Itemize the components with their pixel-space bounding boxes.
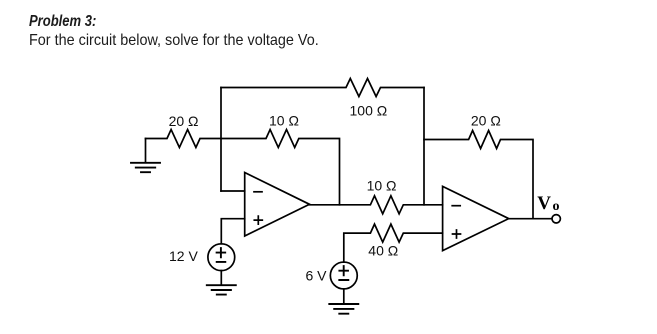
svg-text:20 Ω: 20 Ω <box>471 113 501 129</box>
svg-text:100 Ω: 100 Ω <box>350 103 388 119</box>
svg-text:12 V: 12 V <box>169 248 198 264</box>
svg-text:V: V <box>537 193 551 214</box>
svg-text:40 Ω: 40 Ω <box>368 242 398 258</box>
svg-text:6 V: 6 V <box>306 268 328 284</box>
svg-text:10 Ω: 10 Ω <box>367 177 397 193</box>
svg-text:10 Ω: 10 Ω <box>269 113 299 129</box>
svg-text:o: o <box>553 199 560 214</box>
svg-text:20 Ω: 20 Ω <box>169 113 199 129</box>
